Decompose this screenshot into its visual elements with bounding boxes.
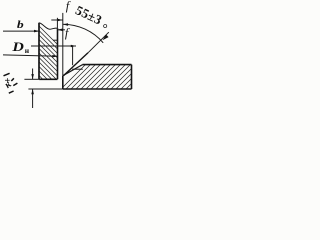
svg-text:b: b xyxy=(17,20,24,31)
svg-text:D: D xyxy=(11,40,24,54)
svg-text:н: н xyxy=(25,46,30,55)
